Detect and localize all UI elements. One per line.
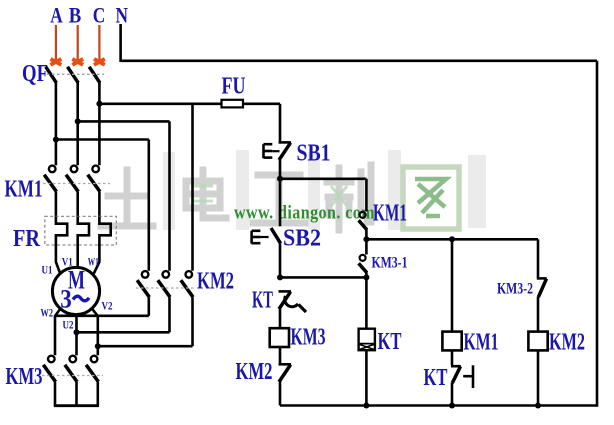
KM1 linkage dashed — [43, 183, 110, 185]
node KM2 branch bottom — [535, 403, 541, 409]
svg-text:KM1: KM1 — [5, 177, 43, 203]
wire N drop — [119, 24, 122, 62]
breaker QF label — [22, 61, 48, 87]
wire KM1 coil to KT contact — [451, 350, 454, 365]
button SB1 label — [297, 141, 331, 167]
motor 3-phase symbol — [60, 285, 89, 314]
wire KM1 aux to node — [365, 230, 368, 240]
KM3 linkage dashed — [42, 375, 103, 377]
wire N top rail — [121, 59, 597, 62]
node after SB2 — [277, 274, 283, 280]
svg-text:U1: U1 — [42, 263, 53, 277]
wire KM2 pole3 to V2 — [98, 297, 193, 346]
watermark url text — [234, 203, 375, 224]
svg-text:SB1: SB1 — [297, 141, 331, 167]
wire SB2 down — [279, 243, 282, 278]
contact KT (NC delayed open) — [279, 291, 307, 312]
svg-text:V2: V2 — [102, 299, 113, 313]
svg-text:FU: FU — [222, 74, 246, 100]
node KM1 branch bottom — [449, 403, 455, 409]
node N label — [116, 3, 129, 28]
thermal relay FR label — [13, 226, 41, 252]
node B label — [69, 3, 82, 28]
contactor KM3 main contacts — [43, 356, 98, 406]
contactor coil KM2 — [528, 332, 547, 351]
button SB2 (NO) — [252, 228, 281, 244]
phase A supply arrow — [51, 25, 62, 65]
svg-text:KM3: KM3 — [6, 364, 43, 390]
wire KM3-2 to KM2 coil — [537, 297, 540, 332]
terminal V1 label — [62, 255, 73, 269]
wire KM2 coil to bottom — [537, 350, 540, 405]
svg-text:N: N — [116, 3, 129, 28]
contact KM1 aux (NO) — [359, 212, 367, 230]
contactor coil KM2 label — [549, 330, 585, 356]
terminal U1 label — [42, 263, 53, 277]
wire U2 down — [75, 315, 78, 356]
contactor KM2 label — [197, 269, 234, 295]
node KT bottom — [363, 403, 369, 409]
node KM1 branch tap — [449, 236, 455, 242]
svg-text:KM1: KM1 — [464, 330, 499, 356]
contact KM3-2 label — [497, 281, 533, 298]
svg-text:V1: V1 — [62, 255, 73, 269]
fuse FU — [222, 100, 244, 108]
terminal W2 label — [41, 306, 54, 320]
wire KM3 coil down — [279, 347, 282, 364]
wire KT coil to bottom — [365, 350, 368, 407]
svg-text:A: A — [50, 3, 63, 28]
svg-text:KM3: KM3 — [291, 325, 326, 351]
watermark logo — [101, 165, 459, 230]
contactor KM1 main contacts — [44, 166, 100, 217]
fuse FU label — [222, 74, 246, 100]
svg-text:KT: KT — [424, 365, 448, 391]
svg-text:3: 3 — [60, 285, 72, 314]
button SB1 (NC) — [264, 142, 292, 160]
FR heater elements — [56, 217, 111, 246]
wire KM2 pole1 to W2 — [55, 297, 149, 316]
wire selfhold branch — [280, 179, 366, 212]
contact KM1 aux label — [373, 201, 407, 227]
node after SB1 — [277, 176, 283, 182]
svg-text:KM3-1: KM3-1 — [372, 255, 408, 272]
wire phase C to KM2 pole3 — [191, 104, 194, 271]
node U2 junction — [74, 329, 80, 335]
svg-text:www. diangon. com: www. diangon. com — [234, 203, 375, 224]
contactor coil KM3 label — [291, 325, 326, 351]
wire FR to motor V1 — [76, 245, 79, 268]
wire phase A feeder — [56, 140, 149, 271]
node A junction — [53, 137, 59, 143]
svg-text:W1: W1 — [88, 255, 99, 269]
node B junction — [75, 118, 81, 124]
svg-text:KM3-2: KM3-2 — [497, 281, 533, 298]
node selfhold join — [363, 236, 369, 242]
svg-text:KM2: KM2 — [549, 330, 585, 356]
svg-text:U2: U2 — [63, 318, 74, 332]
svg-text:SB2: SB2 — [283, 226, 321, 252]
contact KT lower label — [424, 365, 448, 391]
wire KM3-1 to KT coil — [365, 273, 368, 329]
wire KM1 branch — [451, 239, 454, 331]
node C label — [93, 3, 106, 28]
breaker QF poles — [46, 67, 100, 165]
button SB2 label — [283, 226, 321, 252]
relay coil KT — [359, 329, 375, 351]
wire fuse to control rail — [243, 104, 280, 142]
wire KM3 star bar — [54, 404, 99, 407]
contactor KM2 main contacts — [137, 271, 193, 297]
wire KM2 NC to bottom rail — [279, 382, 282, 406]
wire bottom rail — [280, 404, 597, 407]
svg-text:B: B — [69, 3, 82, 28]
FR dashed box — [45, 216, 117, 245]
phase B supply arrow — [72, 25, 83, 65]
wire phase B feeder — [78, 121, 170, 270]
wire crossrail 239 — [366, 238, 538, 241]
svg-text:C: C — [93, 3, 106, 28]
contact KM2 interlock label — [236, 359, 273, 385]
contact KM3-2 (NC) — [537, 278, 547, 297]
contact KM3-1 label — [372, 255, 408, 272]
wire KT contact to bottom — [451, 383, 454, 406]
svg-text:W2: W2 — [41, 306, 54, 320]
wire FR to motor U1 — [56, 245, 60, 274]
contact KM2 (NC interlock) — [279, 364, 292, 382]
phase C supply arrow — [94, 25, 105, 65]
contact KT (NO delayed close) — [451, 365, 473, 388]
wire junction to SB2 — [279, 179, 282, 227]
terminal W1 label — [88, 255, 99, 269]
svg-text:KM2: KM2 — [236, 359, 273, 385]
svg-text:KM1: KM1 — [373, 201, 407, 227]
svg-text:KT: KT — [252, 288, 273, 314]
wire SB1 to junction — [279, 160, 282, 179]
relay coil KT label — [378, 329, 402, 355]
node C junction — [96, 101, 102, 107]
wire node to KM3-1 — [365, 239, 368, 254]
motor M circle — [52, 267, 99, 314]
svg-text:KM2: KM2 — [197, 269, 234, 295]
wire KM2 pole2 to U2 — [77, 297, 170, 332]
wire W2 down — [55, 309, 61, 356]
motor M letter — [68, 266, 85, 295]
wire FR to motor W1 — [94, 245, 100, 274]
svg-text:KT: KT — [378, 329, 402, 355]
wire SB2 node to KT branch — [280, 276, 366, 279]
wire KM2 branch top — [537, 239, 540, 278]
watermark ghost streaks — [163, 150, 486, 230]
contactor KM1 label — [5, 177, 43, 203]
contactor coil KM3 — [270, 328, 289, 347]
wire N right rail — [596, 61, 599, 407]
svg-text:FR: FR — [13, 226, 41, 252]
contact KM3-1 (NO) — [359, 255, 367, 273]
terminal V2 label — [102, 299, 113, 313]
contactor coil KM1 label — [464, 330, 499, 356]
KM2 linkage dashed — [136, 287, 196, 289]
node KT branch join — [363, 274, 369, 280]
wire KT contact to KM3 coil — [279, 308, 282, 328]
node A label — [50, 3, 63, 28]
wire V2 down — [92, 309, 98, 356]
terminal U2 label — [63, 318, 74, 332]
node V2 junction — [95, 343, 101, 349]
wire phase C feeder — [99, 103, 222, 106]
contactor KM3 label — [6, 364, 43, 390]
contactor coil KM1 — [442, 332, 461, 351]
contact KT delay label — [252, 288, 273, 314]
QF linkage dashed — [47, 73, 104, 75]
svg-text:QF: QF — [22, 61, 48, 87]
